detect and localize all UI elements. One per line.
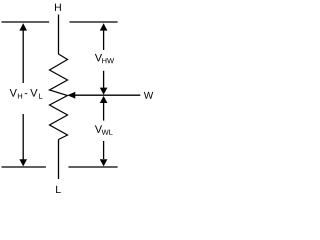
node H label (55, 4, 61, 11)
wire resistor bottom to L terminal (58, 140, 60, 180)
wire H terminal to resistor top (58, 15, 60, 55)
arrow VWL (double-headed dimension arrow, lower right) (100, 96, 108, 166)
label VH - VL (10, 89, 43, 99)
wiper arrow W (67, 92, 140, 99)
dimension line top (extent for VH-VL and VHW) (2, 21, 118, 23)
node L label (56, 186, 61, 193)
arrow VH-VL (double-headed dimension arrow, left) (19, 23, 27, 166)
resistor element (potentiometer body H to L) (50, 54, 68, 140)
label VHW (95, 54, 114, 63)
label VWL (95, 125, 113, 134)
arrow VHW (double-headed dimension arrow, upper right) (100, 23, 108, 95)
dimension line bottom (extent for VH-VL and VWL) (2, 166, 118, 168)
node W label (144, 92, 153, 99)
